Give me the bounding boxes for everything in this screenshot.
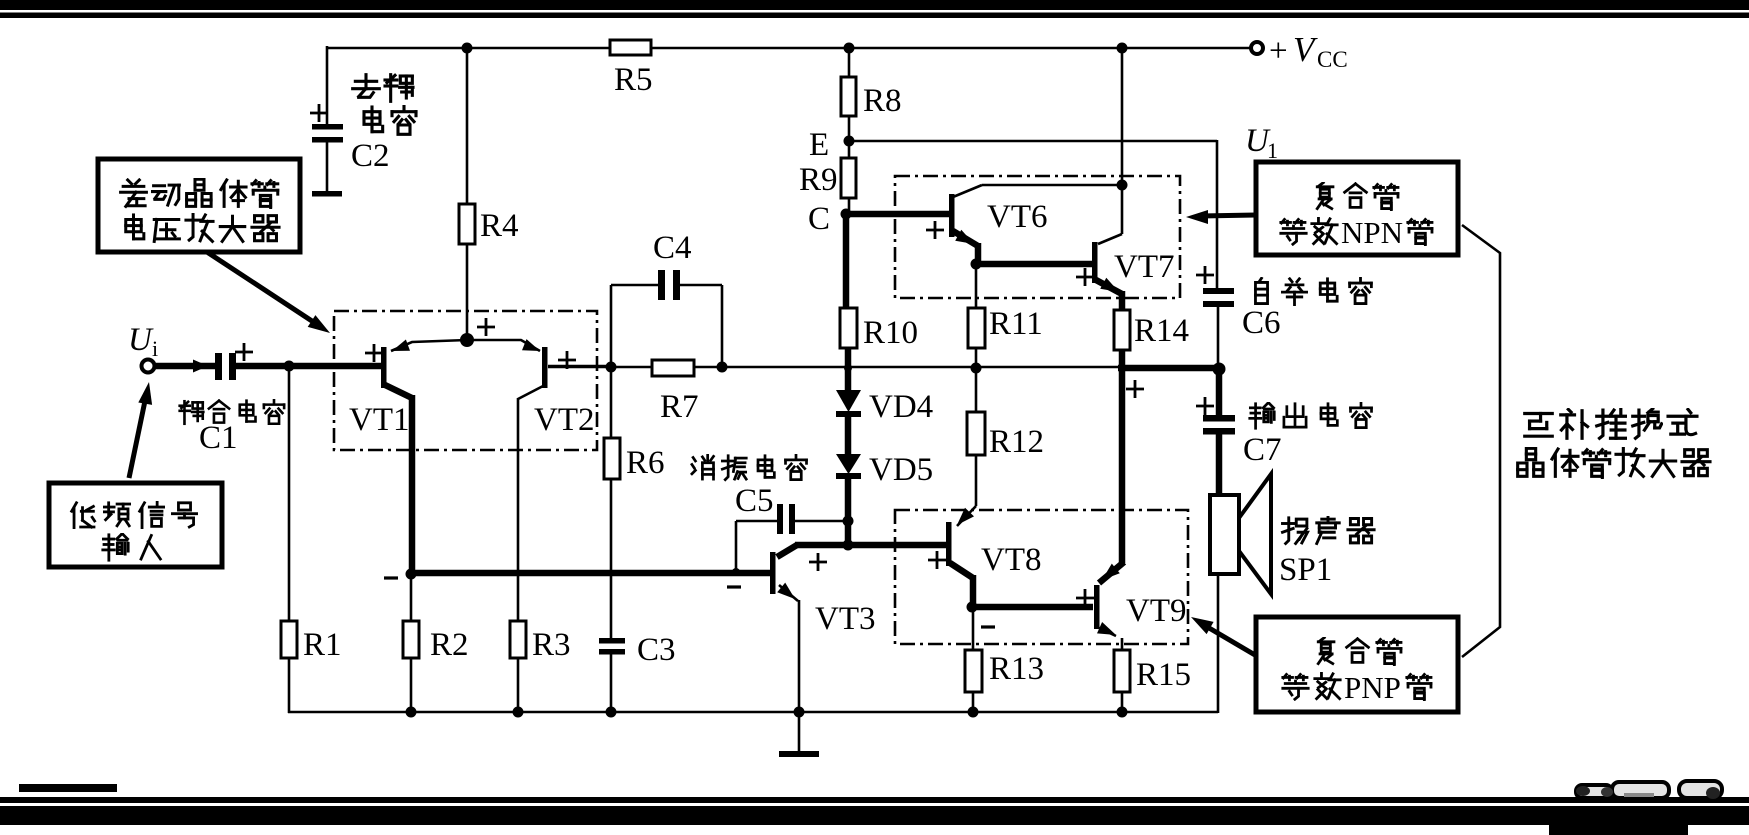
- svg-text:VT1: VT1: [349, 402, 410, 438]
- svg-text:E: E: [809, 127, 829, 163]
- svg-text:R11: R11: [989, 306, 1043, 342]
- svg-text:C6: C6: [1242, 305, 1281, 341]
- svg-text:R9: R9: [799, 162, 838, 198]
- svg-text:R6: R6: [626, 445, 665, 481]
- svg-text:C7: C7: [1243, 432, 1282, 468]
- svg-text:C: C: [808, 201, 830, 237]
- svg-text:U: U: [128, 322, 154, 358]
- svg-text:R3: R3: [532, 627, 571, 663]
- svg-text:R7: R7: [660, 389, 699, 425]
- svg-text:R4: R4: [480, 208, 519, 244]
- svg-text:C2: C2: [351, 138, 390, 174]
- svg-text:R8: R8: [863, 83, 902, 119]
- svg-text:VT8: VT8: [981, 542, 1042, 578]
- svg-text:CC: CC: [1317, 47, 1348, 72]
- svg-text:VT9: VT9: [1126, 593, 1187, 629]
- svg-text:R15: R15: [1136, 657, 1191, 693]
- svg-text:PNP: PNP: [1344, 670, 1401, 705]
- svg-text:C1: C1: [199, 420, 238, 456]
- svg-text:C4: C4: [653, 230, 692, 266]
- svg-text:C5: C5: [735, 483, 774, 519]
- svg-text:SP1: SP1: [1279, 552, 1332, 588]
- svg-text:VD5: VD5: [869, 452, 933, 488]
- svg-text:1: 1: [1267, 138, 1278, 163]
- svg-text:VT2: VT2: [534, 402, 595, 438]
- svg-text:R1: R1: [303, 627, 342, 663]
- svg-text:R13: R13: [989, 651, 1044, 687]
- svg-text:R2: R2: [430, 627, 469, 663]
- svg-text:i: i: [152, 336, 158, 361]
- svg-text:VT3: VT3: [815, 601, 876, 637]
- svg-text:R10: R10: [863, 315, 918, 351]
- svg-text:+: +: [1269, 33, 1288, 69]
- svg-text:VD4: VD4: [869, 389, 933, 425]
- svg-text:R12: R12: [989, 424, 1044, 460]
- svg-text:C3: C3: [637, 632, 676, 668]
- svg-text:VT7: VT7: [1114, 249, 1175, 285]
- svg-text:V: V: [1293, 30, 1318, 69]
- svg-text:R14: R14: [1134, 313, 1189, 349]
- svg-text:R5: R5: [614, 62, 653, 98]
- svg-text:VT6: VT6: [987, 199, 1048, 235]
- svg-text:NPN: NPN: [1341, 215, 1403, 250]
